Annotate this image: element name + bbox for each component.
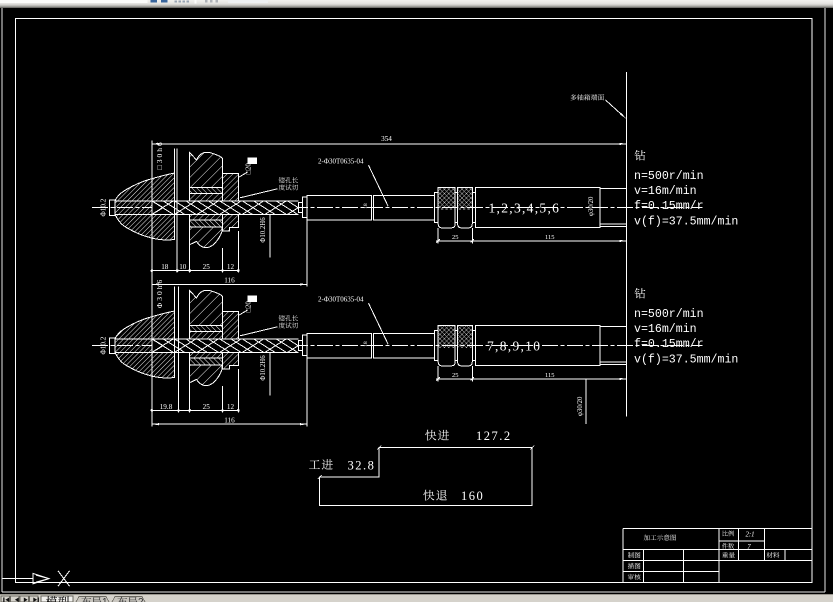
svg-text:f=0.15mm/r: f=0.15mm/r bbox=[634, 338, 704, 351]
bushing band fore-hatch above (upper) bbox=[190, 193, 223, 201]
title label miaotu bbox=[628, 563, 634, 569]
leader line for tool label (lower) bbox=[369, 303, 389, 344]
dimension line 115 (lower) bbox=[472, 378, 626, 380]
drill body (lower) bbox=[152, 339, 298, 353]
svg-text:18: 18 bbox=[363, 341, 369, 347]
spindle end inner line (upper) bbox=[600, 223, 627, 225]
svg-text:10: 10 bbox=[179, 263, 187, 271]
title label zhongliang (weight) bbox=[722, 552, 728, 558]
drill shank flange (upper) bbox=[302, 197, 307, 218]
toolbar separator bbox=[194, 0, 196, 3]
svg-text:115: 115 bbox=[545, 234, 555, 241]
drill bushing flange upper (lower) bbox=[223, 311, 239, 339]
drill bushing flange lower (upper) bbox=[223, 214, 239, 231]
cycle label rapid advance bbox=[425, 430, 436, 441]
toolbar strip fragment at top bbox=[0, 0, 833, 8]
extension lines right dims (upper) bbox=[437, 228, 439, 244]
svg-text:32.8: 32.8 bbox=[348, 459, 376, 473]
svg-text:354: 354 bbox=[381, 135, 392, 143]
bushing band fore-hatch above (lower) bbox=[190, 331, 223, 339]
svg-text:12: 12 bbox=[227, 263, 235, 271]
drill flutes (lower) bbox=[152, 339, 298, 353]
toolbar faint icon glyphs bbox=[175, 0, 178, 2]
label kongkong trial-cut text (lower) bbox=[279, 315, 285, 321]
svg-text:127.2: 127.2 bbox=[476, 429, 512, 443]
label kongkong trial-cut text (upper) bbox=[279, 177, 285, 183]
extension rod section A (upper) bbox=[307, 195, 372, 219]
toolbar white field left bbox=[0, 0, 148, 3]
svg-text:φ30/20: φ30/20 bbox=[577, 396, 584, 416]
title label zhitu bbox=[628, 552, 634, 558]
svg-text:12: 12 bbox=[227, 403, 235, 411]
svg-text:25: 25 bbox=[452, 372, 459, 379]
bushing band back-hatch above (lower) bbox=[190, 326, 223, 332]
svg-text:25: 25 bbox=[203, 263, 211, 271]
svg-text:7,8,9,10: 7,8,9,10 bbox=[487, 338, 541, 353]
title label shenhe bbox=[628, 574, 634, 580]
svg-text:Φ10.2H6: Φ10.2H6 bbox=[260, 355, 267, 381]
rod end ring (upper) bbox=[435, 193, 439, 223]
leader for box face label bbox=[606, 100, 625, 117]
bushing band back-hatch below (lower) bbox=[190, 358, 223, 365]
cycle label work feed bbox=[309, 460, 320, 469]
drill bushing flange upper (upper) bbox=[223, 173, 239, 201]
leader for square 20 (upper) bbox=[239, 172, 248, 177]
drill pilot stub (upper) bbox=[109, 200, 115, 216]
work cycle diagram outline bbox=[320, 448, 532, 506]
drill point cone (lower) bbox=[152, 339, 163, 346]
centerline of upper spindle/drill axis bbox=[92, 207, 703, 209]
extension line 18 dim (upper) bbox=[176, 149, 178, 273]
dimension line 115 (upper) bbox=[472, 240, 626, 242]
drill top edge (upper) bbox=[115, 200, 298, 202]
leader line for trial-cut label (lower) bbox=[240, 327, 278, 336]
knurled nut 2 (upper) bbox=[458, 187, 473, 228]
toolbar white pill right bbox=[228, 0, 268, 3]
title label cailiao (material) bbox=[766, 552, 772, 558]
svg-text:□30h6: □30h6 bbox=[155, 140, 164, 170]
nut gap neck (upper) bbox=[455, 193, 457, 223]
fixture clamp block upper (upper) bbox=[190, 152, 223, 187]
spindle end inner line (lower) bbox=[600, 361, 627, 363]
svg-text:116: 116 bbox=[224, 277, 235, 285]
model/layout tab bar bbox=[0, 595, 833, 602]
svg-text:Φ10.2: Φ10.2 bbox=[99, 198, 107, 216]
extension lines right dims (lower) bbox=[437, 366, 439, 382]
dimension line 25 (upper) bbox=[436, 240, 474, 242]
workpiece egg-shaped part (lower) bbox=[115, 311, 175, 378]
svg-text:φ30/20: φ30/20 bbox=[588, 196, 595, 216]
bushing band fore-hatch below (lower) bbox=[190, 352, 223, 358]
toolbar small marks bbox=[205, 0, 208, 3]
leader line for trial-cut label (upper) bbox=[240, 189, 278, 198]
leader for square 20 (lower) bbox=[239, 310, 248, 315]
centerline of lower spindle/drill axis bbox=[92, 345, 703, 347]
joint lines (upper) bbox=[371, 195, 373, 219]
svg-text:2:1: 2:1 bbox=[745, 531, 754, 538]
joint lines (lower) bbox=[371, 333, 373, 357]
svg-text:Φ10.2H6: Φ10.2H6 bbox=[260, 217, 267, 243]
svg-text:19.8: 19.8 bbox=[160, 403, 173, 411]
drill shank flange (lower) bbox=[302, 335, 307, 356]
svg-text:25: 25 bbox=[203, 403, 211, 411]
dimension extension lines (lower) bbox=[151, 266, 153, 427]
drawing area bottom edge bbox=[2, 591, 825, 593]
drill shank neck (upper) bbox=[298, 203, 302, 213]
svg-text:Φ30h6: Φ30h6 bbox=[155, 278, 164, 308]
cycle label rapid retract bbox=[423, 490, 434, 501]
svg-text:25: 25 bbox=[452, 234, 459, 241]
svg-text:n=500r/min: n=500r/min bbox=[634, 308, 704, 321]
small dimension line (upper) bbox=[152, 270, 238, 272]
drill body (upper) bbox=[152, 201, 298, 215]
bushing band fore-hatch below (upper) bbox=[190, 214, 223, 220]
extension rod section A (lower) bbox=[307, 333, 372, 357]
machining parameters text (upper) bbox=[635, 150, 646, 161]
nut gap neck (lower) bbox=[455, 331, 457, 361]
svg-text:18: 18 bbox=[161, 263, 169, 271]
fixture clamp block upper (lower) bbox=[190, 290, 223, 325]
extension line phi10.2H6 (lower) bbox=[269, 352, 271, 395]
clamp solid symbol (upper) bbox=[247, 157, 257, 164]
layout2 tab bbox=[112, 597, 145, 602]
svg-text:Φ10.2: Φ10.2 bbox=[99, 336, 107, 354]
extension line for phi30/20 (lower) bbox=[585, 379, 587, 424]
UCS icon X axis line bbox=[2, 578, 33, 580]
fixture support block lower (upper) bbox=[190, 227, 222, 248]
svg-text:2-Φ30T0635-04: 2-Φ30T0635-04 bbox=[318, 296, 364, 304]
layout1 tab bbox=[76, 597, 109, 602]
spindle end section (lower) bbox=[600, 326, 627, 364]
extension rod section B (upper) bbox=[374, 195, 435, 219]
knurled nut 1 (upper) bbox=[438, 187, 455, 228]
cycle diagram corner ticks bbox=[318, 446, 534, 480]
tab nav buttons bbox=[1, 596, 10, 602]
svg-text:18: 18 bbox=[363, 203, 369, 209]
leader line for tool label (upper) bbox=[369, 165, 389, 206]
knurled nut 2 (lower) bbox=[458, 325, 473, 366]
svg-text:1,2,3,4,5,6: 1,2,3,4,5,6 bbox=[489, 200, 561, 215]
drill pilot stub (lower) bbox=[109, 338, 115, 354]
workpiece egg-shaped part (upper) bbox=[115, 173, 175, 240]
dimension line 116 (lower) bbox=[152, 423, 307, 425]
small dimension line (lower) bbox=[152, 409, 238, 411]
neck before sleeve (lower) bbox=[472, 331, 475, 361]
svg-text:v(f)=37.5mm/min: v(f)=37.5mm/min bbox=[634, 354, 738, 367]
toolbar icon fragment blue 1 bbox=[151, 0, 158, 3]
drill flutes (upper) bbox=[152, 201, 298, 215]
title block text jiagong shiyitu bbox=[644, 534, 650, 540]
drill bushing flange lower (lower) bbox=[223, 352, 239, 369]
svg-text:f=0.15mm/r: f=0.15mm/r bbox=[634, 200, 704, 213]
knurled nut 1 (lower) bbox=[438, 325, 455, 366]
drill bottom edge (lower) bbox=[115, 351, 298, 353]
workpiece right face line (upper) bbox=[174, 148, 176, 239]
svg-text:160: 160 bbox=[461, 489, 484, 503]
UCS icon X letter bbox=[58, 571, 70, 586]
multi-spindle box face line bbox=[625, 72, 627, 417]
drill point cone (upper) bbox=[152, 201, 163, 208]
bushing band back-hatch above (upper) bbox=[190, 188, 223, 194]
fixture support block lower (lower) bbox=[190, 365, 222, 386]
workpiece right face line (lower) bbox=[174, 286, 176, 377]
svg-text:v(f)=37.5mm/min: v(f)=37.5mm/min bbox=[634, 216, 738, 229]
spindle sleeve cylinder (lower) bbox=[476, 326, 600, 366]
svg-text:116: 116 bbox=[224, 416, 235, 424]
neck before sleeve (upper) bbox=[472, 193, 475, 223]
svg-text:1: 1 bbox=[102, 597, 108, 602]
spindle sleeve cylinder (upper) bbox=[476, 188, 600, 228]
drill shank neck (lower) bbox=[298, 341, 302, 351]
svg-text:n=500r/min: n=500r/min bbox=[634, 170, 704, 183]
svg-text:7: 7 bbox=[747, 544, 751, 551]
drawing area left edge bbox=[1, 8, 3, 592]
spindle end section (upper) bbox=[600, 188, 627, 226]
drawing area right edge bbox=[824, 8, 826, 592]
bushing band back-hatch below (upper) bbox=[190, 220, 223, 227]
toolbar icon fragment blue 2 bbox=[161, 0, 167, 3]
extension line phi10.2H6 (upper) bbox=[269, 214, 271, 257]
extension for 19.8 (lower) bbox=[178, 287, 180, 413]
extension rod section B (lower) bbox=[374, 333, 435, 357]
dimension line 354 bbox=[152, 143, 627, 145]
svg-text:v=16m/min: v=16m/min bbox=[634, 185, 697, 198]
UCS icon arrowhead bbox=[33, 573, 49, 583]
tab nav arrows bbox=[3, 598, 39, 602]
rod end ring (lower) bbox=[435, 331, 439, 361]
title label bili (scale) bbox=[723, 531, 728, 537]
drill bottom edge (upper) bbox=[115, 213, 298, 215]
svg-text:v=16m/min: v=16m/min bbox=[634, 323, 697, 336]
clamp solid symbol (lower) bbox=[247, 295, 257, 302]
machining parameters text (lower) bbox=[635, 288, 646, 299]
svg-text:115: 115 bbox=[545, 372, 555, 379]
title label jianshu (count) bbox=[722, 543, 728, 549]
label duozhouxiang duanmian bbox=[570, 94, 576, 100]
svg-text:2-Φ30T0635-04: 2-Φ30T0635-04 bbox=[318, 158, 364, 166]
title block grid bbox=[623, 528, 813, 530]
svg-text:2: 2 bbox=[138, 597, 144, 602]
dimension extension lines (upper) bbox=[151, 141, 153, 287]
model tab (active) bbox=[41, 596, 73, 602]
dimension line 116 (upper) bbox=[152, 283, 307, 285]
drill top edge (lower) bbox=[115, 338, 298, 340]
dimension line 25 (lower) bbox=[436, 378, 474, 380]
